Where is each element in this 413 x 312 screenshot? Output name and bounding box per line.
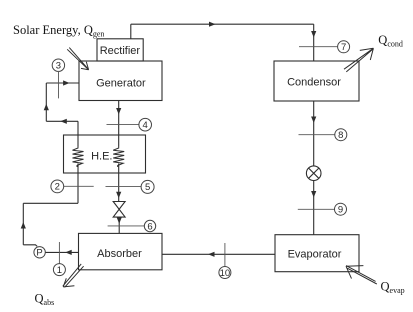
Qabs double arrow out of absorber <box>63 264 84 287</box>
box Condensor <box>274 61 359 101</box>
wire riser bottom elbow to pump <box>23 245 37 247</box>
box Generator <box>79 61 162 101</box>
coil right in H.E. <box>113 147 124 168</box>
expansion valve circle-X <box>306 166 321 181</box>
svg-text:3: 3 <box>56 61 61 72</box>
wire top rail <box>131 23 314 25</box>
wire left riser lower <box>22 203 24 245</box>
svg-text:Qcond: Qcond <box>378 33 403 49</box>
node 3 stem <box>58 72 60 98</box>
node 8 circle <box>335 129 347 141</box>
node 5 circle <box>141 180 154 193</box>
wire elbow to H.E. left pipe <box>23 202 78 204</box>
wire generator down through H.E. to valve <box>118 101 120 202</box>
arrow down above node 9 <box>311 191 316 198</box>
svg-text:Evaporator: Evaporator <box>288 249 342 261</box>
node 1 circle <box>53 264 65 276</box>
svg-text:10: 10 <box>220 268 231 279</box>
arrow right on top rail <box>209 22 216 27</box>
wire expansion valve to evaporator <box>313 181 315 236</box>
svg-text:P: P <box>36 248 42 259</box>
svg-text:8: 8 <box>338 130 343 141</box>
wire rectifier top to rail <box>130 24 132 39</box>
node 4 tick <box>107 123 139 125</box>
node 5 tick <box>106 185 142 187</box>
svg-text:2: 2 <box>55 182 60 193</box>
node 2 circle <box>51 180 64 193</box>
node 1 tick <box>58 242 60 264</box>
svg-text:9: 9 <box>338 205 343 216</box>
arrow down above valve <box>116 192 121 199</box>
wire rail down to condensor <box>313 24 315 61</box>
svg-text:Rectifier: Rectifier <box>100 45 141 57</box>
wire evaporator to absorber <box>162 253 275 255</box>
wire valve to absorber <box>118 217 120 233</box>
svg-text:Condensor: Condensor <box>287 77 341 89</box>
Qcond double arrow out of condensor <box>344 48 374 72</box>
node 10 tick <box>224 243 226 267</box>
svg-text:7: 7 <box>341 42 346 53</box>
arrow down above node 6 <box>117 217 122 224</box>
node 6 tick <box>108 225 145 227</box>
svg-text:Absorber: Absorber <box>97 248 142 260</box>
wire condensor to expansion valve <box>313 101 315 166</box>
box H.E. <box>64 135 146 173</box>
svg-text:Generator: Generator <box>96 77 146 89</box>
node 9 circle <box>335 203 347 215</box>
node 10 circle <box>219 267 231 279</box>
node 2 tick <box>64 185 94 187</box>
node 6 circle <box>144 220 155 231</box>
svg-text:H.E.: H.E. <box>91 151 112 163</box>
svg-text:Qabs: Qabs <box>35 292 55 308</box>
arrow up on lower riser <box>21 222 26 229</box>
arrow left toward pump <box>65 250 72 255</box>
node 7 circle <box>338 41 350 53</box>
arrow down below condensor <box>311 117 316 124</box>
wire H.E. left pipe <box>77 121 79 203</box>
arrow left toward absorber <box>208 252 215 257</box>
svg-text:1: 1 <box>57 265 62 276</box>
Qevap double arrow into evaporator <box>346 266 377 284</box>
arrow up on upper riser <box>44 104 49 111</box>
svg-text:4: 4 <box>143 120 148 131</box>
node 9 tick <box>298 208 335 210</box>
wire upper elbow horizontal <box>46 120 78 122</box>
arrow down below generator <box>116 108 121 115</box>
box Evaporator <box>275 235 359 272</box>
svg-text:6: 6 <box>147 221 152 232</box>
svg-text:5: 5 <box>145 182 150 193</box>
box Absorber <box>79 233 163 269</box>
arrow down into condensor <box>311 31 316 38</box>
node 4 circle <box>139 118 152 131</box>
throttle valve bowtie <box>113 202 125 218</box>
solar energy double arrow into generator <box>67 48 88 70</box>
arrow right into generator <box>63 80 70 85</box>
pump P circle <box>34 247 45 258</box>
coil left in H.E. <box>73 147 84 168</box>
node 7 tick <box>299 46 338 48</box>
svg-text:Qevap: Qevap <box>381 279 405 295</box>
arrow left on upper elbow horizontal <box>60 119 67 124</box>
wire into generator left <box>46 82 79 84</box>
box Rectifier <box>97 39 143 61</box>
wire upper riser <box>45 83 47 121</box>
wire absorber to pump <box>45 251 78 253</box>
node 8 tick <box>299 134 335 136</box>
node 3 circle <box>52 59 64 71</box>
svg-text:Solar Energy, Qgen: Solar Energy, Qgen <box>13 23 104 39</box>
